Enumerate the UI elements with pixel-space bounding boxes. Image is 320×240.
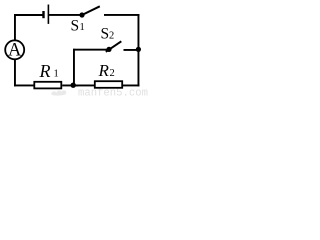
svg-text:manfen5.com: manfen5.com — [78, 88, 148, 98]
wire S2 to right vertical — [124, 49, 139, 51]
svg-text:2: 2 — [110, 68, 115, 79]
battery positive plate (long thin) — [48, 5, 50, 24]
wire right vertical — [138, 14, 140, 86]
wire bottom-left horizontal to R1 — [14, 85, 34, 87]
switch S2 blade — [106, 41, 122, 52]
node junction dot between R1 and R2 — [71, 83, 76, 88]
svg-text:S: S — [101, 26, 110, 43]
svg-text:R: R — [39, 61, 51, 81]
wire branch vertical (junction up to S2 branch) — [73, 49, 75, 86]
node junction dot on right wire — [136, 47, 141, 52]
switch S2 pivot dot — [106, 47, 111, 52]
watermark logo blob — [51, 90, 67, 95]
wire left vertical (corner to ammeter top) — [14, 14, 16, 40]
wire R2 to bottom-right corner — [123, 85, 140, 87]
svg-text:2: 2 — [109, 31, 114, 42]
wire S1 to top-right corner — [104, 14, 139, 16]
svg-text:1: 1 — [80, 22, 85, 33]
switch S1 blade — [82, 6, 100, 15]
svg-text:A: A — [8, 41, 22, 61]
switch S1 pivot dot — [79, 12, 84, 17]
ammeter A1 circle — [5, 40, 24, 59]
wire branch horizontal to S2 — [73, 49, 109, 51]
wire junction to R2 — [75, 85, 95, 87]
svg-text:R: R — [98, 61, 110, 80]
wire R1 to junction — [62, 85, 78, 87]
resistor R1 box — [34, 82, 61, 89]
wire top-left horizontal (corner to battery) — [15, 14, 43, 16]
battery negative plate (short thick) — [42, 11, 44, 18]
svg-text:S: S — [71, 18, 80, 35]
wire battery to switch S1 — [49, 14, 83, 16]
svg-text:1: 1 — [54, 69, 59, 80]
resistor R2 box — [95, 81, 122, 88]
wire ammeter bottom to bottom-left corner — [14, 59, 16, 86]
